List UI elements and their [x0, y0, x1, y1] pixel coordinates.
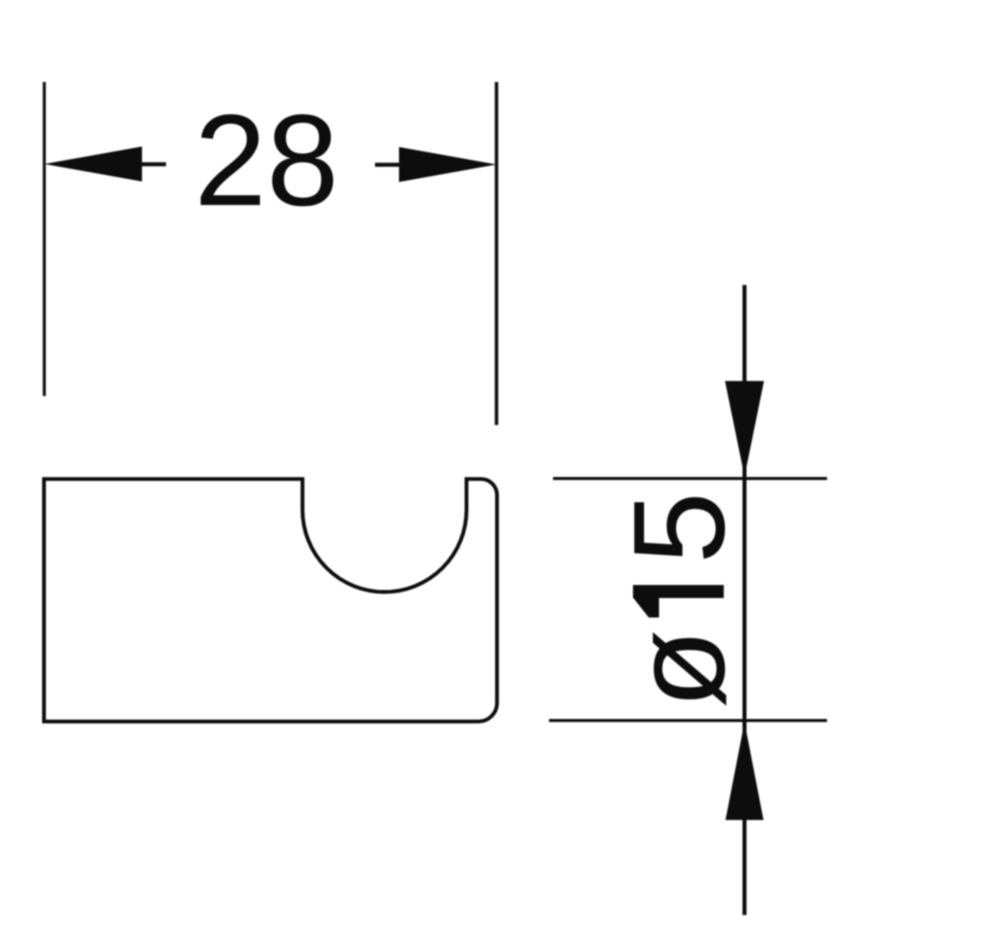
dimension text dia 15 (rotated): digit 1 flag — [633, 598, 659, 618]
arrowhead down (dia 15 dim, top) — [725, 381, 764, 477]
svg-text:5: 5 — [606, 492, 752, 564]
dimension text dia 15 (rotated): digit 1 stem — [633, 585, 724, 598]
dimension line stub left — [142, 162, 166, 166]
arrowhead up (dia 15 dim, bottom) — [726, 722, 764, 820]
arrowhead left of 28 dimension — [44, 147, 142, 182]
svg-text:28: 28 — [194, 87, 339, 233]
arrowhead right of 28 dimension — [399, 147, 497, 182]
extension line left (width 28 dim) — [43, 82, 46, 396]
part outline (bracket section with semicircular groove) — [44, 479, 497, 722]
extension line right (width 28 dim) — [495, 82, 498, 425]
svg-text:ø: ø — [606, 629, 752, 708]
dimension line vertical (dia 15 dim) — [743, 285, 747, 915]
extension line bottom (dia 15 dim) — [549, 719, 827, 722]
extension line top (dia 15 dim) — [553, 477, 827, 480]
dimension line stub right — [375, 163, 399, 167]
